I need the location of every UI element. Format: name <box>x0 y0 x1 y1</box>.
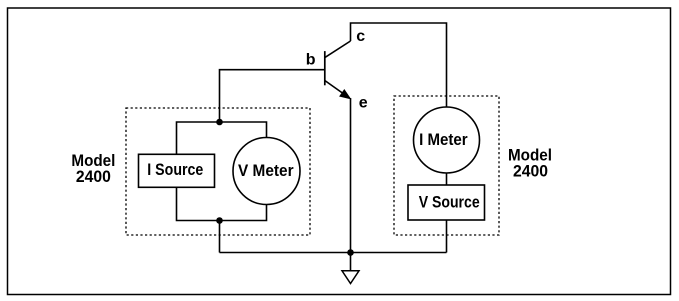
right dashed box (Model 2400) <box>394 96 499 235</box>
svg-text:2400: 2400 <box>76 168 111 186</box>
I Source box <box>139 154 215 187</box>
ground symbol <box>342 253 359 284</box>
node dot bottom <box>216 217 223 224</box>
svg-text:c: c <box>356 28 365 45</box>
svg-text:I Source: I Source <box>147 161 203 179</box>
emitter vertical wire <box>350 98 352 253</box>
wire loop bottom <box>177 187 267 220</box>
svg-text:V Source: V Source <box>419 194 480 212</box>
junction dot at ground node <box>347 249 354 256</box>
V Meter circle <box>233 138 300 205</box>
node dot top <box>216 119 223 126</box>
svg-text:e: e <box>359 94 368 111</box>
wire I Meter to V Source <box>446 173 448 185</box>
transistor Q1 <box>325 41 351 99</box>
base wire <box>220 70 325 122</box>
left dashed box (Model 2400) <box>126 108 310 235</box>
svg-text:2400: 2400 <box>513 162 548 180</box>
V Source box <box>408 185 485 220</box>
I Meter circle <box>414 107 480 173</box>
svg-text:b: b <box>306 51 316 68</box>
wire V Source drop to bottom rail <box>446 220 448 252</box>
collector lead <box>325 41 351 58</box>
emitter lead <box>325 81 350 99</box>
wire collector to top and down right side <box>351 23 447 108</box>
wire loop top (I Source / V Meter parallel) <box>177 122 267 154</box>
emitter arrowhead <box>340 90 350 99</box>
svg-text:I Meter: I Meter <box>419 131 468 149</box>
base bar <box>324 51 326 85</box>
bottom rail wire <box>220 252 447 254</box>
svg-text:V Meter: V Meter <box>238 162 294 180</box>
wire left drop to bottom rail <box>219 221 221 253</box>
